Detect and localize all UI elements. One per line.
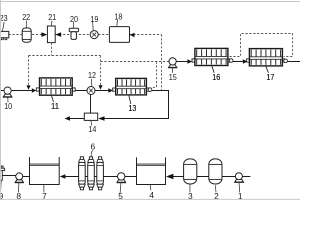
arrow into 13 — [108, 88, 113, 92]
pump 5 — [117, 173, 126, 201]
tank 3 — [184, 159, 197, 201]
svg-text:7: 7 — [42, 191, 47, 200]
tank 22 — [22, 12, 31, 42]
pump 10 — [3, 87, 13, 111]
wire: 13 concentrate to box 14 — [104, 91, 168, 119]
svg-text:12: 12 — [88, 70, 96, 80]
dashed line B (13 permeate header) — [101, 61, 170, 63]
tank 9 (clipped at edge) — [0, 166, 5, 201]
tank 2 — [209, 159, 222, 201]
tank 18 — [109, 12, 129, 43]
wire 12 to 13 — [95, 90, 108, 92]
wire: 17 outlet right — [287, 61, 300, 63]
arrow into 7 — [60, 174, 66, 179]
dashed drop onto 13 feed — [100, 56, 102, 86]
svg-text:8: 8 — [16, 191, 21, 200]
svg-text:20: 20 — [70, 14, 78, 24]
svg-text:16: 16 — [212, 72, 220, 82]
svg-text:5: 5 — [118, 191, 123, 200]
dosing tank 21 — [47, 12, 56, 43]
arrow down onto 11 feed — [26, 85, 30, 89]
svg-text:2: 2 — [214, 191, 219, 200]
svg-text:14: 14 — [88, 124, 96, 134]
membrane module 13 — [113, 78, 152, 112]
wire: feed into pump 1 — [242, 176, 250, 178]
svg-text:1: 1 — [238, 191, 243, 200]
injector 20 — [69, 14, 78, 40]
wire 15 to 16 — [176, 61, 187, 63]
svg-text:6: 6 — [90, 141, 95, 151]
svg-text:17: 17 — [266, 72, 274, 82]
pump 8 — [15, 173, 24, 201]
membrane module 11 — [36, 78, 75, 111]
scan edge top — [0, 1, 300, 3]
arrow into 11 — [32, 88, 36, 92]
membrane module 17 — [247, 49, 288, 82]
filter columns 6 — [79, 141, 104, 190]
wire: 21 bottom dashed drop — [51, 43, 53, 56]
wire: 12 drain down to 14 — [90, 95, 92, 114]
svg-text:15: 15 — [169, 72, 177, 82]
svg-text:23: 23 — [0, 13, 8, 23]
wire: 14 discharge left — [70, 118, 84, 120]
wire 11 to 12 — [75, 90, 87, 92]
svg-text:4: 4 — [149, 190, 154, 200]
arrow discharge left — [65, 116, 71, 121]
arrow into 21 left — [41, 32, 47, 37]
svg-text:3: 3 — [188, 191, 193, 200]
wire: feed line to module 11 — [0, 90, 32, 92]
wire 2 to 3 — [197, 176, 209, 178]
pump 12 — [87, 70, 96, 95]
pump 15 — [168, 58, 177, 82]
scan edge left — [0, 0, 2, 200]
wire: NF permeate riser — [161, 35, 163, 91]
wire 1 to 2 — [222, 176, 235, 178]
scan edge bottom — [0, 198, 300, 200]
arrow into 17 — [243, 59, 248, 63]
wire 9 to 8 — [2, 175, 16, 177]
wire: top dosing dashed line — [9, 34, 162, 36]
arrow into 21 right — [55, 32, 61, 37]
svg-text:10: 10 — [4, 101, 12, 111]
arrow into 16 — [187, 59, 192, 63]
wire 16 to 17 — [233, 61, 243, 63]
arrow into 14 — [98, 116, 104, 121]
wire 3 to 4 — [173, 176, 183, 178]
pump 1 — [234, 173, 244, 201]
dashed line A (dosing to membranes) — [29, 55, 101, 57]
dashed drop onto 11 feed — [28, 56, 30, 85]
wire 5 to 4 — [125, 176, 137, 178]
dashed tap to 13 right stub — [152, 62, 157, 88]
arrow into 4 — [166, 174, 173, 179]
svg-text:18: 18 — [114, 12, 122, 22]
arrow down onto 13 feed — [98, 85, 102, 89]
dashed recycle loop 16/17 — [230, 34, 293, 57]
svg-text:13: 13 — [128, 103, 136, 113]
tank 4 — [137, 157, 166, 200]
svg-text:11: 11 — [51, 101, 59, 111]
wire 8 to 7 — [23, 176, 30, 178]
tank 7 — [29, 157, 59, 201]
box 14 — [84, 113, 97, 134]
pump 19 — [90, 14, 98, 39]
arrow into 18 — [130, 33, 135, 38]
membrane module 16 — [192, 48, 233, 82]
wire 7 to pump 5 through columns — [65, 176, 117, 178]
svg-text:21: 21 — [48, 12, 56, 22]
tank 23 — [0, 13, 9, 40]
svg-text:22: 22 — [22, 12, 30, 22]
svg-text:19: 19 — [90, 14, 98, 24]
